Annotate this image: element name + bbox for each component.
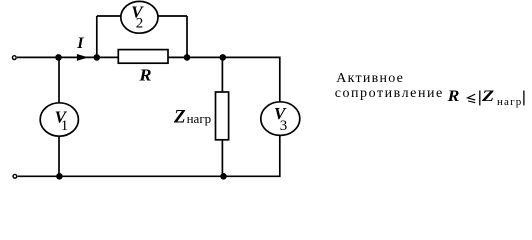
- node junction V2-left: [94, 54, 101, 61]
- formula less-or-equal slanted symbol: [468, 94, 476, 103]
- wire: [96, 16, 98, 57]
- svg-text:3: 3: [280, 118, 288, 134]
- node junction bottom-left: [56, 173, 63, 180]
- voltmeter V1 circle: [40, 103, 78, 136]
- svg-text:I: I: [76, 35, 84, 52]
- formula left absolute bar: [479, 91, 481, 106]
- terminal input bottom: [13, 174, 17, 178]
- node junction Z-top: [220, 54, 227, 61]
- node junction Z-bottom: [220, 173, 227, 180]
- svg-text:1: 1: [61, 118, 69, 134]
- wire: [187, 56, 223, 58]
- wire: [158, 15, 187, 17]
- wire: [58, 57, 60, 103]
- wire: [223, 57, 280, 102]
- wire: [97, 15, 121, 17]
- wire: [168, 56, 187, 58]
- wire: [59, 56, 119, 58]
- svg-text:Z: Z: [173, 106, 186, 127]
- load impedance Z body: [216, 92, 229, 140]
- formula right absolute bar: [523, 91, 525, 106]
- wire: [18, 135, 280, 176]
- svg-text:сопротивление: сопротивление: [335, 86, 444, 101]
- arrow current direction: [77, 54, 88, 61]
- wire: [186, 16, 188, 57]
- wire: [58, 136, 60, 176]
- wire: [221, 140, 223, 177]
- svg-text:нагр: нагр: [497, 96, 522, 108]
- voltmeter V3 circle: [261, 102, 300, 136]
- voltmeter V2 circle: [121, 1, 158, 33]
- svg-text:2: 2: [136, 16, 144, 32]
- node junction V2-right: [184, 54, 191, 61]
- svg-text:R: R: [447, 88, 460, 105]
- wire: [17, 56, 59, 58]
- wire: [221, 57, 223, 92]
- svg-text:Активное: Активное: [336, 71, 404, 86]
- svg-text:нагр: нагр: [187, 111, 212, 126]
- svg-text:R: R: [138, 66, 151, 85]
- svg-text:Z: Z: [481, 88, 495, 105]
- terminal input top: [12, 56, 16, 60]
- resistor R body: [118, 50, 168, 64]
- node junction top-left: [55, 54, 62, 61]
